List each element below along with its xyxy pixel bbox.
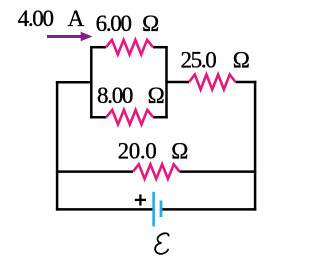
svg-text:Ω: Ω: [233, 47, 250, 72]
svg-text:4.00: 4.00: [18, 6, 54, 31]
svg-text:Ω: Ω: [142, 11, 159, 36]
svg-text:25.0: 25.0: [180, 47, 216, 72]
svg-text:8.00: 8.00: [97, 83, 133, 108]
svg-text:20.0: 20.0: [118, 138, 157, 163]
svg-text:6.00: 6.00: [96, 11, 132, 36]
svg-text:Ω: Ω: [171, 138, 188, 163]
svg-text:Ω: Ω: [148, 83, 165, 108]
svg-text:A: A: [68, 6, 85, 31]
